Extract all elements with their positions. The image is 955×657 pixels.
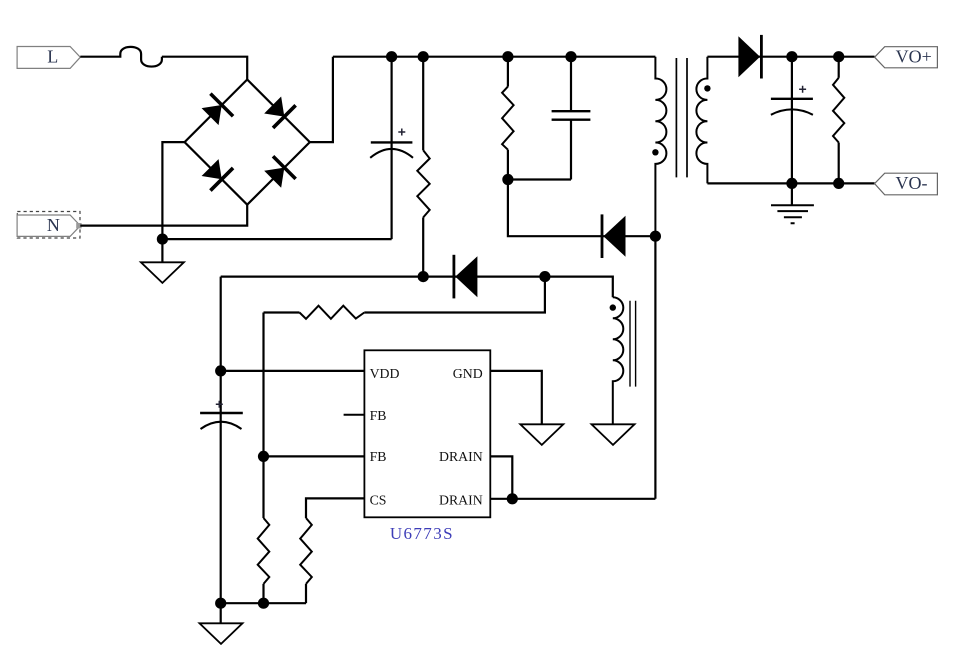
wire bridge left vertex to ground node — [162, 142, 184, 262]
diode D6 clamp — [601, 214, 626, 258]
inductor L2 aux winding — [613, 297, 624, 424]
terminal VO- flag — [875, 173, 938, 195]
diode D5 output — [738, 35, 762, 79]
svg-text:U6773S: U6773S — [390, 524, 454, 543]
transformer T1 primary phase dot — [652, 149, 658, 155]
wire vdd left drop — [220, 277, 222, 371]
node bottom cap junction — [215, 598, 226, 609]
transformer T1 core — [676, 58, 687, 177]
bridge diode D2 top-right — [261, 94, 297, 130]
svg-text:FB: FB — [370, 449, 387, 464]
resistor R2 startup column — [422, 57, 424, 151]
capacitor C3 output lead — [791, 57, 793, 184]
capacitor C4 vdd lead — [220, 371, 222, 603]
node aux-top junction — [539, 271, 550, 282]
wire secondary bottom to VO- — [707, 182, 874, 184]
node bus-snubberR junction — [502, 51, 513, 62]
terminal VO+ flag — [875, 47, 938, 68]
ground GND4 — [200, 623, 243, 644]
wire GND pin — [490, 371, 542, 424]
node bus-cap junction — [386, 51, 397, 62]
ground GND1 — [141, 262, 184, 283]
wire snubber RC bottom link — [508, 178, 571, 180]
bridge rectifier diamond — [185, 80, 310, 205]
wire snubber to primary bottom — [508, 180, 656, 237]
svg-text:VO-: VO- — [896, 173, 928, 193]
wire DC- rail to bulk cap — [162, 238, 391, 240]
resistor R3 snubber — [507, 57, 509, 87]
node drain junction — [507, 493, 518, 504]
capacitor C1 plates — [371, 141, 413, 143]
svg-text:CS: CS — [370, 493, 387, 508]
wire DRAIN2 pin — [490, 498, 655, 500]
fuse F1 — [80, 47, 162, 67]
wire VDD pin — [221, 370, 365, 372]
capacitor C3 plates — [771, 98, 813, 100]
node bus-snubberC junction — [565, 51, 576, 62]
svg-text:DRAIN: DRAIN — [439, 449, 483, 464]
ground GND2 — [520, 424, 563, 445]
wire ground stub bottom — [220, 603, 222, 623]
wire bridge right vertex to top bus — [310, 57, 333, 142]
transformer T1 secondary winding — [696, 57, 707, 184]
node bus-startup junction — [418, 51, 429, 62]
node output bottom load — [833, 178, 844, 189]
node bottom fb junction — [258, 598, 269, 609]
bridge diode D1 top-left — [199, 92, 235, 128]
earth ground output — [791, 183, 793, 205]
node VDD junction — [215, 365, 226, 376]
node FB junction — [258, 451, 269, 462]
terminal L flag — [17, 47, 80, 69]
node output top load — [833, 51, 844, 62]
capacitor C3 plus sign — [799, 86, 806, 93]
svg-text:VO+: VO+ — [896, 47, 932, 67]
bridge diode D4 bottom-right — [261, 155, 297, 191]
wire top bus — [333, 56, 656, 58]
svg-text:FB: FB — [370, 408, 387, 423]
bridge diode D3 bottom-left — [199, 156, 235, 192]
wire DRAIN1 pin — [490, 456, 512, 498]
capacitor C4 plates — [200, 412, 243, 414]
svg-text:DRAIN: DRAIN — [439, 493, 483, 508]
resistor R4 feedback horizontal — [264, 311, 300, 313]
terminal N flag — [17, 215, 80, 236]
svg-text:GND: GND — [453, 366, 483, 381]
wire VDD rail top — [221, 277, 613, 298]
node output top cap — [786, 51, 797, 62]
node primary bottom junction — [650, 231, 661, 242]
capacitor C2 snubber — [570, 57, 572, 180]
wire FB pin — [264, 455, 365, 457]
pin FB1 stub — [344, 414, 365, 416]
wire secondary top to VO+ — [707, 56, 874, 58]
svg-text:VDD: VDD — [370, 366, 400, 381]
capacitor C1 bulk lead — [391, 57, 393, 239]
node startup-vdd junction — [418, 271, 429, 282]
diode D7 vdd — [453, 255, 478, 299]
node snubber bottom — [502, 174, 513, 185]
inductor L2 core — [630, 301, 636, 387]
capacitor C4 plus sign — [216, 401, 223, 408]
transformer T1 primary winding — [655, 57, 666, 237]
node DC- junction — [157, 234, 168, 245]
node output bottom cap — [786, 178, 797, 189]
terminal N dashed selection box — [17, 212, 80, 239]
transformer T1 secondary phase dot — [704, 85, 710, 91]
svg-text:N: N — [47, 215, 60, 235]
resistor R7 load — [838, 57, 840, 78]
wire fuse to bridge top — [162, 57, 247, 80]
terminal N selection handle — [76, 223, 81, 228]
svg-text:L: L — [47, 46, 58, 66]
ground GND3 aux — [592, 424, 635, 445]
op-amp U1 U6773S box — [364, 350, 490, 517]
wire primary bottom to drain — [654, 236, 656, 499]
resistor R5 fb — [258, 518, 270, 584]
inductor L2 phase dot — [610, 304, 616, 310]
wire bottom rail — [221, 602, 306, 604]
wire CS pin to R6 — [306, 498, 364, 518]
wire FB column — [262, 313, 264, 519]
resistor R6 cs — [300, 518, 312, 584]
capacitor C1 plus sign — [398, 129, 405, 136]
wire N to bridge bottom — [80, 205, 247, 226]
